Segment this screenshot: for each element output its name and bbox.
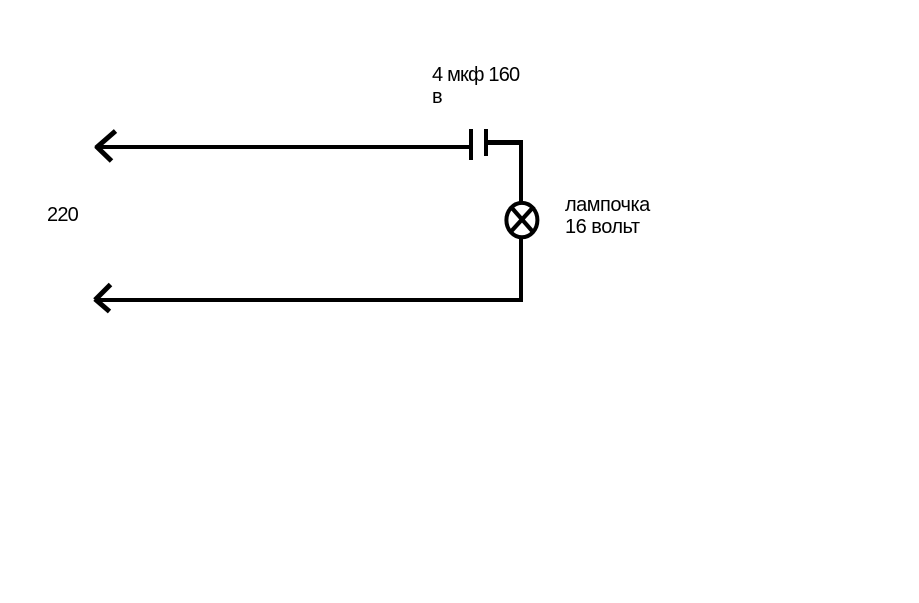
wire top horizontal (220 line to capacitor) [97, 145, 469, 149]
wire from capacitor right plate to corner [486, 140, 523, 145]
lamp HL1 cross stroke 1 [510, 206, 533, 233]
arrow head top-left (lower barb) [96, 146, 112, 161]
node label 220 (mains) [47, 204, 78, 226]
arrow head bottom-left (upper barb) [95, 285, 111, 301]
arrow head top-left (upper barb) [96, 131, 116, 148]
lamp HL1 circle [506, 203, 537, 237]
capacitor C1 right plate [484, 129, 488, 156]
wire vertical from lamp down to bottom wire [519, 236, 523, 302]
lamp HL1 label "лампочка 16 вольт" [565, 194, 650, 238]
capacitor C1 left plate [469, 129, 473, 160]
lamp HL1 cross stroke 2 [510, 206, 534, 232]
wire vertical down from corner to lamp [519, 140, 523, 204]
arrow head bottom-left (lower barb) [95, 299, 110, 312]
wire bottom horizontal (lamp return to 220 line) [96, 298, 523, 302]
capacitor C1 value label "4 мкф 160 в" [432, 64, 519, 108]
